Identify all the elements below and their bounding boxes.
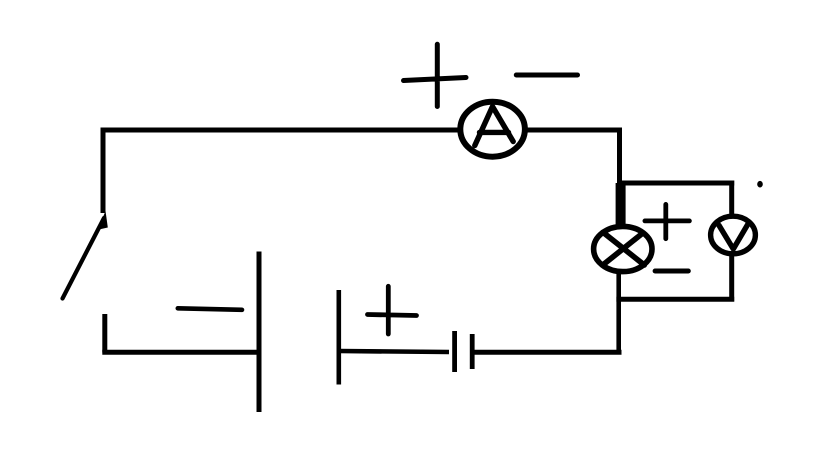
switch S1 lower contact (102, 314, 107, 353)
ammeter A1 body (460, 102, 525, 157)
ammeter A1 letter A (475, 107, 513, 146)
switch S1 arrowhead (98, 211, 108, 230)
battery B1 long plate (257, 252, 262, 413)
battery B1 second plate (336, 290, 341, 385)
label minus (lamp) (655, 269, 688, 274)
label plus (battery) (368, 286, 417, 334)
label plus (ammeter) (404, 44, 467, 106)
switch S1 blade (63, 218, 105, 299)
wire top horizontal (left of ammeter) (101, 128, 463, 133)
wire top horizontal (right of ammeter) (523, 128, 622, 133)
label minus (battery) (178, 308, 242, 310)
label minus (ammeter) (516, 73, 577, 78)
voltmeter V1 letter V (719, 223, 749, 249)
lamp L1 cross (603, 232, 644, 265)
wire voltmeter branch vertical (729, 181, 734, 302)
lamp L1 body (594, 226, 652, 271)
voltmeter V1 body (711, 216, 756, 254)
wire thick segment (rail to lamp) (616, 183, 626, 230)
wire bottom left (102, 350, 259, 355)
wire bottom middle (339, 351, 449, 352)
node dot (757, 181, 763, 188)
wire right vertical (corner to parallel rail) (617, 128, 622, 187)
wire bottom right (473, 350, 622, 355)
wire right vertical (below lamp to bottom) (616, 268, 621, 353)
wire parallel bottom rail (616, 297, 734, 302)
battery cell 2 plate 1 (452, 331, 457, 372)
label plus (lamp) (645, 204, 690, 238)
wire parallel top rail (617, 181, 734, 186)
battery cell 2 plate 2 (470, 334, 475, 369)
wire left vertical (101, 128, 106, 214)
